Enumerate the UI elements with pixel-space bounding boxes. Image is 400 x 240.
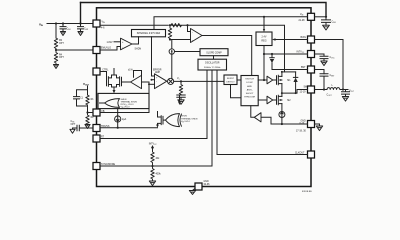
wire top VIN rail to right side [81, 3, 327, 17]
svg-text:OPT: OPT [59, 43, 64, 45]
diode bootstrap [270, 54, 274, 70]
svg-text:BST: BST [301, 67, 306, 69]
wire VIN pin to CIN3 [315, 16, 327, 18]
svg-text:300kHz TO 2MHz: 300kHz TO 2MHz [204, 67, 220, 69]
resistor 40k [151, 150, 160, 166]
transistor M2 [277, 93, 292, 111]
gate XOR fault (mirrored) [163, 114, 182, 127]
node junction FB riser [148, 83, 155, 85]
svg-text:SHOOT: SHOOT [246, 93, 254, 95]
capacitor COUT [327, 90, 354, 97]
svg-text:SHDN: SHDN [135, 49, 142, 51]
wire SYNC/MODE to oscillator [100, 70, 212, 166]
gate driver G2 [267, 96, 273, 104]
node junction sense R left [169, 24, 171, 26]
ground CVCC [321, 61, 327, 66]
wire INTVCC feed arrow (fault cluster) [178, 96, 181, 105]
summing node (multiplier) [168, 78, 174, 84]
node junction REG/INTVCC [263, 53, 265, 55]
svg-text:EN/UVLO: EN/UVLO [101, 48, 111, 50]
pin CTRL [93, 68, 109, 75]
svg-text:SHDN: SHDN [181, 116, 187, 118]
svg-text:21-28: 21-28 [299, 20, 306, 22]
node junction SYNC divider [151, 165, 153, 167]
wire BST internal [272, 69, 308, 71]
wire M1 drain rail [282, 71, 296, 73]
node labels fault gate inputs [181, 116, 198, 124]
wire switch logic to driver 2 [258, 99, 267, 101]
pin BST [301, 66, 315, 73]
node junction drain rail [281, 71, 283, 73]
ground R2 [85, 125, 90, 129]
pin RT [93, 135, 105, 142]
wire current amp output to switch logic [202, 36, 252, 76]
node junction SS / 2uA [117, 127, 119, 129]
current sense amp (circle) [279, 112, 285, 118]
ground compensation [178, 100, 184, 105]
svg-text:DETECT: DETECT [226, 81, 235, 83]
svg-text:THERMAL SHDN: THERMAL SHDN [181, 117, 198, 120]
svg-text:LOGIC: LOGIC [246, 82, 253, 84]
node junction sense R right [186, 24, 188, 26]
node label INTVCC (divider) [149, 143, 158, 146]
capacitor CIN1 [60, 24, 71, 32]
ground CSS [70, 128, 75, 133]
node junction CIN1 [62, 22, 64, 24]
wire SW node rail [282, 90, 308, 94]
node junction CIN2 / VIN rail [79, 22, 81, 24]
current source slope (into summing node) [169, 49, 174, 54]
pin VIN (4-6) [93, 20, 106, 30]
pin TRK/SS [93, 125, 110, 132]
node junction REG supply tap [263, 16, 265, 18]
op-amp EN comparator [121, 38, 133, 50]
wire current source to summing node [171, 54, 173, 78]
wire BIAS external to VOUT node [315, 40, 344, 89]
ground 400k [149, 181, 155, 186]
pin INTVCC [297, 51, 315, 58]
node junction bootstrap diode [271, 53, 273, 55]
node junction R3 tap [55, 22, 57, 24]
svg-text:1.81V: 1.81V [107, 42, 114, 44]
svg-text:±1%: ±1% [128, 70, 133, 72]
current source 2uA [115, 109, 127, 128]
svg-text:-: - [192, 31, 193, 34]
svg-text:400k: 400k [156, 173, 162, 175]
pin GND (right) [296, 121, 315, 133]
wire sense node to current source [170, 40, 172, 49]
svg-text:OSCILLATOR: OSCILLATOR [205, 62, 220, 65]
gate driver G1 [267, 76, 273, 84]
box SWITCH LOGIC AND ANTI-SHOOT THROUGH [241, 76, 258, 106]
svg-text:17-19, 30: 17-19, 30 [296, 131, 307, 133]
wire to current amp minus input [170, 39, 191, 41]
capacitor compensation CC [177, 95, 185, 100]
pin BIAS [301, 36, 315, 43]
capacitor CSS [71, 121, 94, 131]
capacitor CIN3 [322, 17, 336, 25]
wire inverter output to gnd bus [261, 117, 271, 124]
node junction CBST/SW [323, 88, 325, 90]
svg-text:BIAS: BIAS [301, 36, 307, 39]
wire oscillator to slope comp [213, 56, 215, 60]
wire EN divider drop from VIN [55, 24, 57, 39]
node VIN input label [39, 22, 44, 27]
wire REF output riser [152, 37, 155, 76]
ground right GND pin [315, 124, 323, 131]
wire VIN rail riser (external, to top rail) [80, 3, 82, 24]
box shutdown logic [98, 93, 149, 108]
wire RT to oscillator [100, 70, 207, 139]
svg-text:THROUGH: THROUGH [244, 97, 255, 99]
capacitor CBST [320, 74, 334, 90]
svg-text:OPT: OPT [59, 57, 64, 59]
wire switch logic to driver 1 [258, 79, 267, 81]
node junction amp input [169, 38, 171, 40]
pin SW [300, 86, 315, 94]
pin SYNC/MODE [93, 163, 116, 170]
svg-text:12-19: 12-19 [300, 92, 307, 94]
node junction FB [86, 106, 93, 114]
svg-text:ANTI-: ANTI- [247, 88, 253, 91]
wire BIAS into REG (arrow) [272, 38, 308, 40]
wire TRK/SS internal [100, 127, 158, 129]
wire shutdown gate output [100, 102, 105, 104]
svg-text:AMP: AMP [155, 71, 160, 74]
diode D1 body [293, 72, 297, 93]
svg-text:INTERNAL 0.97V REF: INTERNAL 0.97V REF [137, 32, 161, 35]
svg-text:2µA: 2µA [122, 118, 127, 121]
ground CIN1 [60, 32, 65, 36]
svg-text:OPT: OPT [71, 124, 76, 126]
wire VC output [174, 78, 224, 81]
wire REG output riser [263, 46, 265, 81]
box BURST DETECT [224, 75, 237, 85]
wire driver1 to M1 gate [273, 79, 277, 81]
ground CIN3 [323, 25, 330, 30]
wire internal VIN sense line [100, 25, 285, 72]
wire M2 source to gnd bus [281, 118, 283, 125]
note figure number [302, 191, 312, 193]
node junction CIN3 [325, 16, 327, 18]
box SLOPE COMP [200, 49, 228, 56]
resistor R1 [86, 95, 94, 106]
wire SW to inductor [315, 89, 328, 91]
resistor R2 [86, 113, 94, 125]
svg-text:AND: AND [247, 85, 252, 88]
wire VOUT to divider [87, 86, 89, 95]
wire 1.81V to comparator [114, 41, 121, 43]
wire VIN rail into REG (arrow) [263, 17, 265, 32]
wire SHDN comparator output [132, 37, 141, 51]
svg-text:8391B BD: 8391B BD [302, 191, 312, 193]
IC boundary U1 [97, 8, 312, 187]
pin FB [93, 109, 105, 116]
wire FB riser to buffer and error amp [100, 82, 149, 113]
wire L to VOUT node [340, 89, 348, 91]
inductor L [327, 85, 340, 90]
node labels shutdown gate inputs [121, 99, 138, 109]
node junction VOUT [342, 88, 344, 90]
wire burst detect loop to switch logic [231, 85, 242, 98]
pin VIN (21-28) right [299, 13, 315, 22]
wire VIN input [47, 23, 93, 25]
wire burst detect to switch logic (top) [237, 79, 241, 81]
node junction VC compensation [180, 80, 182, 82]
op-amp unity buffer [122, 70, 142, 89]
ground R4 [53, 65, 58, 69]
box 2.4V REG [256, 32, 272, 46]
wire pair tail into shutdown box (arrow) [113, 90, 116, 94]
capacitor CVCC [320, 54, 335, 61]
wire to current amp plus input [188, 25, 191, 31]
pin EN/UVLO [93, 47, 111, 54]
svg-text:GND: GND [204, 181, 209, 183]
transistor pair CTRL buffer input [100, 69, 122, 90]
node 1.81V reference label [107, 42, 114, 44]
svg-text:BURST: BURST [227, 78, 235, 80]
node junction driver supply [263, 79, 265, 81]
op-amp ERROR AMP [153, 69, 167, 88]
wire INTVCC internal [264, 53, 308, 55]
resistor RSENSE (horizontal) [171, 24, 181, 27]
node junction REF riser / EA input [151, 79, 155, 81]
node VOUT label (FB divider) [83, 82, 90, 87]
svg-text:2.4V: 2.4V [262, 36, 267, 39]
pin CLKOUT [295, 151, 315, 158]
op-amp current sense A1 [191, 29, 203, 43]
node junction EN divider [55, 49, 57, 51]
inverter elbow from switch logic [251, 106, 255, 118]
wire gnd bus to GND pin [271, 123, 308, 125]
svg-text:32-36: 32-36 [204, 184, 211, 186]
wire BST to CBST [315, 70, 325, 74]
pin GND (bottom) [195, 181, 210, 190]
ground bottom GND pin [189, 189, 195, 195]
capacitor C1 (parallel R1) [74, 90, 88, 106]
svg-text:THERMAL SHDN: THERMAL SHDN [121, 100, 138, 103]
box INTERNAL 0.97V REF [132, 30, 166, 37]
svg-text:SWITCH: SWITCH [245, 79, 254, 81]
svg-text:SLOPE COMP: SLOPE COMP [206, 52, 222, 54]
node junction SW rail [281, 92, 297, 94]
ground COUT [342, 97, 348, 102]
wire EN pin to comparator [100, 47, 121, 51]
resistor R3 [54, 38, 64, 50]
wire INTVCC divider arrow [151, 146, 154, 150]
transistor M1 [277, 72, 292, 93]
wire slope comp to current source [175, 51, 201, 53]
box OSCILLATOR [198, 59, 227, 70]
wire INTVCC to CVCC [315, 53, 325, 55]
ground CIN2 [78, 32, 83, 36]
capacitor CIN2 [78, 24, 89, 32]
node junction gnd bus [281, 123, 283, 125]
resistor 400k [151, 166, 162, 181]
transistor SS discharge [156, 112, 163, 128]
resistor compensation RC [179, 81, 182, 95]
wire driver2 to M2 gate [273, 99, 277, 101]
wire oscillator to CLKOUT pin [217, 70, 308, 155]
wire EN/UVLO to pin [56, 49, 93, 51]
resistor vertical (sense divider) [168, 25, 171, 39]
svg-text:REG: REG [261, 40, 266, 43]
wire internal VIN supply rail (to REF and REG) [154, 17, 308, 30]
gate OR shutdown (mirrored) [105, 99, 120, 108]
resistor R4 [54, 50, 64, 65]
gate inverter (faces left) [254, 113, 261, 122]
